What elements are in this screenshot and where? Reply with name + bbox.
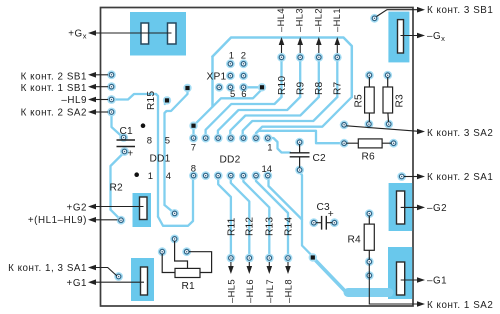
wire: via V3 to via V4 — [194, 87, 263, 135]
wire: DD2 pin14 to via column — [269, 180, 303, 220]
pad HL1 wire — [333, 53, 342, 62]
svg-text:C1: C1 — [120, 126, 134, 137]
svg-text:К конт. 1 SB1: К конт. 1 SB1 — [21, 83, 87, 94]
pad area: -G2 contact right — [389, 183, 413, 231]
wire R1 right lead — [189, 252, 212, 273]
wire -HL6 arrow — [248, 262, 250, 272]
resistor R9 trace column — [299, 57, 301, 97]
pad XP1 pin2 — [239, 59, 248, 68]
pad R1 wiper — [170, 235, 179, 244]
pad DD2 pin8 — [189, 171, 198, 180]
wire: DD2 pin11 to R12 — [231, 180, 250, 258]
svg-text:–HL7: –HL7 — [264, 279, 275, 303]
pad C3 right — [330, 218, 339, 227]
wire: DD1 loop to DD2 pin8 — [158, 178, 193, 226]
svg-text:–HL4: –HL4 — [275, 8, 286, 32]
resistor R3 body — [383, 87, 393, 113]
wire: XP1 top trace long — [211, 57, 214, 107]
svg-text:1: 1 — [267, 143, 272, 154]
svg-text:–HL5: –HL5 — [225, 279, 236, 303]
wire K kont.2 SA1 — [404, 176, 418, 178]
svg-text:R8: R8 — [314, 81, 325, 95]
svg-text:R5: R5 — [354, 94, 365, 108]
svg-text:2: 2 — [241, 51, 246, 62]
svg-text:14: 14 — [262, 164, 273, 175]
svg-text:XP1: XP1 — [207, 71, 227, 82]
resistor R7 trace column — [336, 57, 338, 97]
contact slot +G2 — [140, 197, 148, 220]
wire -HL4 arrow — [281, 39, 283, 53]
pad HL3 wire — [296, 53, 305, 62]
pad DD2 pin2 — [252, 134, 261, 143]
pad XP1 pin1 — [226, 59, 235, 68]
wire: DD2 pin10 to R11 — [218, 180, 231, 258]
svg-text:R1: R1 — [182, 281, 196, 292]
pad R4 bottom — [365, 257, 374, 266]
svg-text:К конт. 2 SA1: К конт. 2 SA1 — [427, 172, 493, 183]
pad XP1 pin6 — [239, 83, 248, 92]
svg-text:–HL8: –HL8 — [283, 279, 294, 303]
svg-text:К конт. 3 SB1: К конт. 3 SB1 — [427, 5, 493, 16]
pad DD2 pin6 — [201, 134, 210, 143]
pad DD2 pin13 — [252, 171, 261, 180]
wire R1 left lead — [162, 254, 175, 273]
via V3 DD2 pin7 net — [189, 122, 197, 130]
pad R14 bottom / -HL8 — [284, 254, 293, 263]
wire: via to ground band — [313, 258, 345, 292]
pad +(HL1-HL9) — [117, 216, 126, 225]
svg-text:DD1: DD1 — [150, 154, 171, 165]
wire K kont.2 SA2 — [95, 111, 108, 113]
svg-text:К конт. 3 SA2: К конт. 3 SA2 — [427, 128, 493, 139]
wire K kont.3 SA2 — [347, 126, 418, 131]
pad HL2 wire — [314, 53, 323, 62]
pad C2 bottom — [295, 166, 304, 175]
resistor R2 column to +(HL1-HL9) pad — [111, 210, 122, 221]
pad R6 left — [340, 139, 349, 148]
via DD1 pin1 — [134, 172, 139, 177]
jumper S1 right blade — [168, 23, 177, 44]
via V4 XP1 net — [258, 83, 266, 91]
pad C1 top — [119, 133, 128, 142]
svg-text:+: + — [328, 209, 334, 220]
svg-text:К конт. 1 SA2: К конт. 1 SA2 — [427, 300, 493, 311]
pad R11 bottom / -HL5 — [227, 254, 236, 263]
svg-text:1: 1 — [148, 171, 153, 182]
pad DD2 pin4 — [226, 134, 235, 143]
pad HL4 wire — [277, 53, 286, 62]
wire: DD2 pin12 to R13 — [243, 180, 269, 258]
svg-text:+G1: +G1 — [67, 278, 87, 289]
pad DD2 pin7 — [189, 134, 198, 143]
wire: long trace to DD2 pin3 — [256, 97, 352, 138]
svg-text:–HL9: –HL9 — [61, 95, 87, 106]
wire: top horizontal trace — [213, 38, 352, 98]
svg-text:–HL2: –HL2 — [312, 8, 323, 32]
svg-text:R9: R9 — [296, 81, 307, 95]
svg-text:R2: R2 — [110, 183, 124, 194]
via V1 — [163, 96, 171, 104]
via V5 ground — [309, 253, 317, 261]
wire R6 leads — [346, 142, 391, 144]
wire R5 leads — [368, 77, 370, 122]
resistor R5 body — [365, 87, 375, 113]
svg-text:R14: R14 — [283, 217, 294, 236]
pad DD2 pin1 — [263, 134, 272, 143]
wire: DD2 pin2 to R6 left — [256, 131, 344, 143]
pad R1 right — [182, 247, 191, 256]
pad R3 bottom — [384, 120, 393, 129]
svg-text:+(HL1–HL9): +(HL1–HL9) — [28, 215, 87, 226]
svg-text:R13: R13 — [265, 217, 276, 236]
contact slot -Gx — [398, 20, 404, 53]
pad XP1 aux — [215, 83, 224, 92]
pad area: -G1 contact right — [388, 247, 412, 299]
wire: C2 bottom to via V5 — [300, 170, 313, 257]
svg-text:R10: R10 — [277, 76, 288, 95]
pad R13 bottom / -HL7 — [265, 254, 274, 263]
wire +(HL1-HL9) — [95, 219, 118, 221]
wire R4 leads — [368, 216, 370, 260]
pad K kont.1 SA2 — [365, 271, 374, 280]
wire: R7 to DD2 pin4 — [243, 97, 338, 138]
pad C1 bottom — [120, 147, 129, 156]
wire: DD2 pin1 to C2 — [268, 138, 290, 153]
capacitor C2 plates — [290, 153, 310, 157]
svg-text:1: 1 — [229, 51, 234, 62]
pad area: +G2 contact left — [133, 193, 152, 227]
wire C2 leads — [299, 144, 301, 167]
pad C2 top — [295, 138, 304, 147]
svg-text:–HL6: –HL6 — [244, 279, 255, 303]
pad DD1 net inner — [170, 209, 179, 218]
resistor R1 body — [175, 268, 200, 277]
wire K kont.2 SB1 — [95, 74, 108, 76]
wire: DD2 pin13 to R14 — [256, 180, 288, 258]
pad DD2 pin5 — [214, 134, 223, 143]
svg-text:R11: R11 — [226, 217, 237, 236]
wire: C1 bottom to R2 column — [111, 152, 125, 210]
svg-text:–HL1: –HL1 — [331, 8, 342, 32]
resistor R8 trace column — [318, 57, 320, 97]
pad K kont.3 SA2 — [340, 120, 349, 129]
svg-text:DD2: DD2 — [220, 155, 241, 166]
wire: DD1 column to inner pad — [165, 205, 175, 213]
wire -HL3 arrow — [299, 39, 301, 53]
pad K kont.3 SB1 — [370, 14, 379, 23]
pad R5 bottom — [365, 120, 374, 129]
wire -HL1 arrow — [336, 39, 338, 53]
svg-text:–G1: –G1 — [427, 276, 447, 287]
pad R5 top — [365, 71, 374, 80]
pad K kont.1 SB1 — [107, 82, 116, 91]
capacitor C3 plates — [322, 216, 327, 230]
pad R12 bottom / -HL6 — [245, 254, 254, 263]
pad R4 top — [365, 209, 374, 218]
resistor R6 body — [358, 139, 382, 148]
svg-text:R3: R3 — [395, 94, 406, 108]
wire -HL8 arrow — [287, 262, 289, 272]
pad R6 right — [389, 139, 398, 148]
board outline — [101, 8, 414, 307]
wire K kont.1 SA2 — [369, 264, 418, 304]
pad DD2 pin10 — [214, 171, 223, 180]
pad K kont.2 SB1 — [107, 70, 116, 79]
wire -HL9 — [95, 99, 108, 101]
capacitor C1 plates — [117, 140, 136, 147]
contact slot -G1 — [397, 262, 405, 295]
resistor R4 body — [364, 224, 374, 250]
wire: ground band bottom to -G1 — [348, 288, 389, 297]
wire -HL7 arrow — [268, 262, 270, 272]
pad -HL9 — [107, 95, 116, 104]
pad DD2 pin11 — [226, 171, 235, 180]
wire: R9 to DD2 pin6 — [218, 97, 300, 138]
svg-text:6: 6 — [241, 89, 246, 100]
svg-text:R7: R7 — [333, 81, 344, 95]
pad XP1 pin5 — [226, 83, 235, 92]
pad K kont.2 SA1 — [397, 172, 406, 181]
pad R3 top — [383, 71, 392, 80]
jumper S1 left blade — [141, 23, 149, 44]
pad area: jumper zone top-left — [130, 12, 186, 56]
via DD1 pin8 — [141, 123, 146, 128]
wire: R10 to DD2 pin5 — [206, 97, 282, 138]
wire -G2 — [401, 206, 418, 208]
svg-text:7: 7 — [191, 143, 196, 154]
wire +G2 — [95, 206, 144, 208]
pad XP1 pin3 — [226, 71, 235, 80]
wire -G1 — [401, 279, 418, 281]
contact slot -G2 — [397, 191, 405, 224]
pad K kont.2 SA2 — [107, 108, 116, 117]
wire R3 leads — [387, 77, 390, 122]
wire: R8 to DD2 pin7 via V3 — [230, 97, 318, 138]
wire K kont.1 SB1 — [95, 86, 108, 88]
svg-text:+G2: +G2 — [67, 202, 87, 213]
wire: K2SA2 pad to C1 top — [112, 113, 124, 138]
wire +G1 — [95, 281, 144, 283]
wire: -HL9 pad to R15 top — [112, 94, 157, 100]
svg-text:–HL3: –HL3 — [294, 8, 305, 32]
arrow +Gx — [88, 30, 96, 36]
wire C3 leads — [316, 222, 332, 224]
pad area: -Gx contact top-right — [388, 12, 409, 63]
svg-text:4: 4 — [166, 171, 171, 182]
wire: via V1 stub — [165, 100, 167, 104]
svg-text:К конт. 1, 3 SA1: К конт. 1, 3 SA1 — [8, 263, 87, 274]
wire: XP1 pin6 to via V4 — [246, 86, 262, 88]
wire: via V2 to DD1 column — [165, 88, 188, 205]
svg-text:R4: R4 — [348, 235, 362, 246]
svg-text:R15: R15 — [146, 91, 157, 110]
pad DD2 pin12 — [239, 171, 248, 180]
wire K kont.1,3 SA1 — [95, 268, 117, 277]
wire -HL5 arrow — [230, 262, 232, 272]
svg-text:5: 5 — [230, 89, 235, 100]
resistor R10 trace column — [280, 57, 282, 97]
pad DD2 pin14 — [263, 171, 272, 180]
svg-text:R12: R12 — [245, 217, 256, 236]
pad R1 left — [158, 247, 167, 256]
svg-text:R6: R6 — [362, 152, 376, 163]
wire R1 wiper lead — [175, 241, 188, 268]
svg-text:–G2: –G2 — [427, 203, 447, 214]
wire -HL2 arrow — [318, 39, 320, 53]
pad DD2 pin9 — [201, 171, 210, 180]
svg-text:К конт. 2 SA2: К конт. 2 SA2 — [21, 108, 87, 119]
pad DD2 pin3 — [239, 134, 248, 143]
resistor R15 trace column — [156, 94, 158, 217]
pad XP1 pin4 — [239, 71, 248, 80]
svg-text:C2: C2 — [313, 153, 327, 164]
pad C3 left — [309, 218, 318, 227]
svg-text:+: + — [127, 149, 133, 160]
wire K kont.3 SB1 — [377, 10, 419, 17]
contact slot +G1 — [141, 267, 148, 295]
svg-text:8: 8 — [147, 136, 152, 147]
pad K kont.1,3 SA1 — [114, 272, 123, 281]
svg-text:5: 5 — [165, 136, 170, 147]
pad area: +G1 contact left — [131, 258, 154, 301]
wire -Gx — [401, 35, 419, 37]
via V2 — [183, 84, 191, 92]
svg-text:К конт. 2 SB1: К конт. 2 SB1 — [21, 72, 87, 83]
svg-text:8: 8 — [191, 164, 196, 175]
wire +Gx label to jumper — [95, 32, 172, 34]
